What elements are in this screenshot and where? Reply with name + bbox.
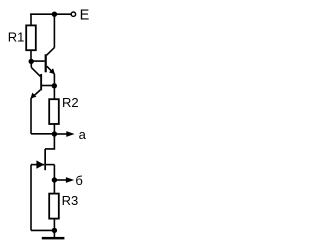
wire Q1 collector to rail [53,14,55,47]
resistor R2 bottom lead [53,124,55,134]
wire node a down with jog [45,134,54,149]
resistor R1 top lead [30,13,32,25]
resistor R3 [49,194,59,219]
ground bar [42,237,65,240]
wire Q1 emitter down [53,74,55,86]
wire Q2 collector to node A [30,61,32,67]
transistor Q2 [31,67,55,98]
wire thyristor cathode down [53,165,55,180]
svg-text:R3: R3 [62,193,79,208]
terminal E circle [71,12,75,16]
svg-text:б: б [75,173,82,188]
resistor R1 bottom lead [30,50,32,61]
resistor R1 [26,25,36,50]
arrow a [54,131,74,137]
resistor R3 top lead [53,180,55,194]
wire Q2 emitter down [30,98,32,134]
junction dot on rail [52,12,57,17]
node X junction dot [52,83,57,88]
svg-text:E: E [80,8,90,24]
svg-text:R2: R2 [62,95,79,110]
node a junction dot [52,131,57,136]
wire to node a horizontal [31,133,54,135]
svg-text:a: a [79,127,87,142]
wire to ground [53,230,55,237]
arrow b [54,177,74,183]
svg-text:R1: R1 [8,30,25,45]
resistor R2 top lead [53,86,55,99]
node A junction dot [29,59,34,64]
node b junction dot [52,177,57,182]
wire top rail [30,13,54,15]
resistor R2 [49,99,59,124]
bottom node junction dot [52,228,57,233]
thyristor VS1 [31,149,54,170]
resistor R3 bottom lead [53,219,55,231]
transistor Q1 [31,48,55,75]
wire rail to terminal [54,13,70,15]
wire bottom horizontal [31,229,54,231]
wire thyristor anode left down [30,165,32,231]
